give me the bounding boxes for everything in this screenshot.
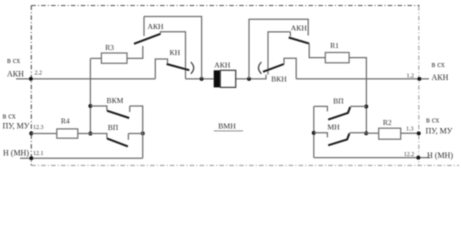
dashed enclosure border right <box>418 6 420 165</box>
arc chute of VKN contact <box>259 62 262 74</box>
svg-text:1.3: 1.3 <box>406 126 414 132</box>
wire: MN left lead <box>314 133 328 138</box>
dashed enclosure border top <box>31 5 419 7</box>
svg-text:в сх: в сх <box>7 56 20 65</box>
svg-text:ВКН: ВКН <box>271 74 287 83</box>
wire: AKN blade output to mid vertical <box>161 32 186 79</box>
svg-text:АКН: АКН <box>7 70 24 79</box>
wire: R3 branch vertical through main bus <box>89 58 91 133</box>
wire: R1 right lead into long vertical <box>349 58 366 134</box>
svg-text:R1: R1 <box>330 41 339 50</box>
contact VKN blade <box>263 64 284 72</box>
svg-text:ВП: ВП <box>333 96 344 105</box>
wire: right block left vertical (bottom) <box>313 106 315 157</box>
wire: VKM right lead down to rail corner <box>130 106 143 158</box>
svg-text:МН: МН <box>327 123 340 132</box>
node: VP right junction <box>141 131 145 135</box>
wire: main bus segment into coil <box>186 78 214 80</box>
svg-text:R3: R3 <box>105 43 114 52</box>
svg-text:Н (МН): Н (МН) <box>3 148 29 157</box>
wire: R4 right lead <box>78 134 107 139</box>
wire: main bus left segment <box>16 78 155 80</box>
dashed enclosure border bottom <box>31 164 459 166</box>
contact VP (right block) blade <box>328 107 350 120</box>
arc chute of KN contact <box>191 62 194 74</box>
contact MN blade <box>328 133 349 145</box>
contact AKN (right, normally open blade) <box>289 38 310 44</box>
node: left box junction <box>200 77 204 81</box>
wire: VKM branch left lead <box>90 106 107 111</box>
contact KN blade <box>167 64 190 70</box>
node: VKM branch junction <box>88 104 92 108</box>
resistor R4 <box>57 129 78 138</box>
wire: R2 left lead <box>366 132 379 134</box>
svg-text:АКН: АКН <box>147 22 164 31</box>
wire: R3 right lead <box>127 46 143 58</box>
svg-text:12.2: 12.2 <box>404 152 415 158</box>
wire: main bus from coil to VKN break <box>236 75 266 79</box>
svg-text:КН: КН <box>170 48 181 57</box>
svg-text:в сх: в сх <box>3 112 16 121</box>
wire: left H(MN) rail <box>20 157 143 159</box>
contact AKN (left, normally open blade) <box>134 34 161 44</box>
node: terminal 12.2 on border <box>416 156 420 160</box>
contact VKM blade <box>107 111 129 118</box>
svg-text:1.2: 1.2 <box>407 73 415 79</box>
node: right box junction <box>247 77 251 81</box>
underline of VMN label <box>214 130 243 132</box>
wire: right AKN blade input stub <box>289 32 291 37</box>
resistor R3 <box>101 53 127 63</box>
svg-text:ПУ, МУ: ПУ, МУ <box>3 122 30 131</box>
wire: left block top rail <box>144 17 202 79</box>
wire: right block left vertical <box>249 19 308 79</box>
node: VP-right branch junction <box>364 105 368 109</box>
wire: KN riser from main bus <box>155 59 167 79</box>
wire: VKN step to main bus <box>284 58 296 79</box>
svg-text:в сх: в сх <box>426 115 439 124</box>
wire: VP right-block left lead <box>314 106 328 111</box>
svg-text:12.1: 12.1 <box>33 151 44 157</box>
resistor R1 <box>325 53 349 63</box>
svg-text:ВП: ВП <box>108 123 119 132</box>
wire: terminal 12.3 lead to R4 <box>31 133 57 135</box>
node: terminal 2.2 on border <box>29 77 33 81</box>
wire: VP right lead to junction <box>350 105 366 107</box>
wire: main bus right segment <box>296 78 429 80</box>
svg-text:АКН: АКН <box>291 23 308 32</box>
svg-text:ПУ, МУ: ПУ, МУ <box>426 127 453 136</box>
node: terminal 12.3 on border <box>29 131 33 135</box>
svg-text:ВМН: ВМН <box>218 121 236 130</box>
svg-text:в сх: в сх <box>432 60 445 69</box>
svg-text:ВКМ: ВКМ <box>107 96 124 105</box>
wire: VP fixed stub <box>127 134 129 140</box>
node: terminal 1.3 on border <box>417 131 421 135</box>
node: R4 output junction <box>88 132 92 136</box>
resistor R2 <box>379 128 401 139</box>
node: terminal 12.1 on border <box>29 156 33 160</box>
wire: right AKN blade to R1 <box>309 44 325 58</box>
svg-text:R2: R2 <box>383 118 392 127</box>
dashed enclosure border left <box>30 6 32 166</box>
contact VP (left block) blade <box>107 138 128 146</box>
svg-text:12.3: 12.3 <box>33 125 44 131</box>
relay coil AKN (black-half rectangle) <box>214 70 221 87</box>
svg-text:АКН: АКН <box>432 73 449 82</box>
wire: MN right lead <box>349 132 366 134</box>
svg-text:2.2: 2.2 <box>35 70 43 76</box>
node: R2 input junction <box>364 131 368 135</box>
wire: VP right lead <box>128 133 142 135</box>
svg-text:АКН: АКН <box>214 60 231 69</box>
wire: R3 left lead <box>90 57 101 59</box>
svg-text:R4: R4 <box>61 116 70 125</box>
wire: right inner horizontal to mid vertical <box>268 32 290 75</box>
node: MN left junction <box>312 131 316 135</box>
svg-text:Н (МН): Н (МН) <box>427 151 453 160</box>
wire: right H(MN) rail <box>314 157 430 159</box>
wire: AKN upper fixed stub <box>143 17 145 37</box>
node: terminal 1.2 on border <box>417 77 421 81</box>
wire: VKM fixed stub <box>129 106 131 112</box>
wire: R2 right lead to terminal 1.3 <box>401 132 419 134</box>
